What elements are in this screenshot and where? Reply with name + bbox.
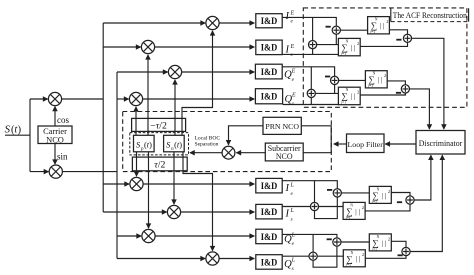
svg-text:E: E [290, 44, 295, 50]
sum box L-I sum [343, 202, 365, 219]
wire sum box 5 to final adder L-I [391, 193, 410, 196]
node minus sign L-I [327, 189, 332, 191]
multiplier cos mixer [48, 92, 61, 105]
wire row5 to mult IeL [103, 183, 129, 185]
wire Q-bus vertical [116, 72, 118, 259]
multiplier sin mixer [49, 165, 62, 178]
wire mult QeE to I&D [182, 71, 255, 73]
svg-text:I&D: I&D [261, 233, 278, 243]
sum box E-Q diff [365, 71, 387, 88]
svg-text:j=1: j=1 [371, 200, 377, 204]
wire code riser to QeE mult [174, 80, 176, 135]
svg-text:| |: | | [356, 255, 361, 263]
node minus sign E-Q [325, 76, 330, 78]
wire final adder E-Q to discriminator [410, 89, 430, 129]
node label QeE [284, 68, 296, 83]
wire row7 branch to plus adder [312, 234, 314, 252]
node minus sign final E-Q [396, 92, 401, 94]
sum box E-I sum [338, 38, 360, 55]
svg-text:2: 2 [386, 19, 388, 24]
svg-text:I&D: I&D [261, 44, 278, 54]
svg-text:L: L [290, 208, 295, 214]
wire row5 output to adders [282, 181, 337, 189]
svg-text:N: N [373, 72, 376, 76]
wire minus adder L-I to sum box [341, 192, 369, 194]
svg-text:The ACF Reconstruction: The ACF Reconstruction [393, 11, 468, 20]
sum box L-I diff [369, 186, 391, 203]
wire row4 to mult QsE [117, 98, 129, 100]
svg-text:E: E [291, 92, 296, 98]
wire code drop to IsL mult [173, 152, 175, 204]
sum box L-Q diff [369, 234, 391, 251]
PRN NCO [263, 117, 301, 134]
wire sum box 4 to final adder Q [360, 93, 405, 95]
delay tau/2 box [132, 157, 187, 171]
svg-text:PRN NCO: PRN NCO [265, 122, 299, 131]
svg-text:N: N [377, 235, 380, 239]
carrier NCO [38, 126, 72, 144]
svg-text:| |: | | [380, 22, 385, 30]
svg-text:I&D: I&D [261, 182, 278, 192]
wire row8 output [283, 255, 309, 257]
node label QeL [284, 233, 296, 248]
adder minus E-I [332, 26, 340, 34]
wire sum box 7 to final adder L-Q [391, 241, 406, 247]
svg-text:j=1: j=1 [340, 101, 346, 105]
multiplier subcarrier/code mixer [222, 146, 235, 159]
node ACF label frame [391, 8, 469, 21]
delay -tau/2 box [132, 118, 186, 131]
wire minus adder L-Q bottom tap [313, 246, 337, 267]
wire row7 to mult QeL [117, 235, 141, 237]
wire subcarrier NCO to code mixer [236, 152, 265, 154]
wire final adder L-I to discriminator [414, 155, 431, 200]
wire final adder E to discriminator [412, 38, 444, 129]
wire discriminator to loop filter [385, 143, 416, 145]
node label QsL [284, 258, 296, 273]
wire Q mixer output to Q-bus [62, 171, 117, 173]
svg-text:N: N [346, 39, 349, 43]
wire plus adder Q to sum box [315, 92, 338, 94]
wire mult QsL to I&D [219, 258, 254, 260]
svg-text:| |: | | [382, 239, 387, 247]
svg-text:2: 2 [362, 205, 364, 210]
svg-text:j=1: j=1 [345, 263, 351, 267]
wire mult QeL to I&D [155, 235, 254, 237]
wire minus adder L-I bottom tap [315, 197, 338, 219]
wire plus adder to sum box [317, 44, 339, 46]
wire sum box 2 to final adder [360, 42, 407, 46]
svg-text:j=1: j=1 [371, 247, 377, 251]
sum box E-I diff [368, 17, 390, 34]
wire I mixer output to I-bus [62, 98, 104, 100]
I&D box 5 [256, 178, 282, 193]
loop filter [347, 134, 385, 153]
discriminator [416, 131, 465, 155]
wire mult IsE to I&D [155, 46, 255, 48]
adder plus E-I [309, 41, 317, 49]
wire mult QsE to I&D [143, 98, 255, 100]
svg-text:S: S [5, 124, 11, 136]
node label IeE [285, 10, 295, 24]
wire row5 branch to plus adder [314, 181, 316, 203]
svg-text:j=1: j=1 [345, 216, 351, 220]
I&D box 3 [255, 64, 282, 79]
wire row8 to mult QsL [117, 258, 205, 260]
wire row4 output [283, 104, 339, 106]
node minus sign final L-I [397, 201, 402, 203]
wire code mixer to separation box [190, 152, 222, 154]
svg-text:j=1: j=1 [369, 30, 375, 34]
BOC separation dashed box [123, 112, 332, 172]
I&D box 4 [255, 89, 282, 104]
multiplier QsL [206, 252, 219, 265]
svg-text:I: I [285, 11, 290, 22]
svg-text:| |: | | [351, 93, 356, 101]
svg-text:| |: | | [382, 192, 387, 200]
wire row3 to mult QeE [117, 71, 168, 73]
adder final E-Q [401, 85, 409, 93]
multiplier IeL [130, 177, 143, 190]
svg-text:2: 2 [357, 90, 359, 95]
wire S(t) lead-in [5, 134, 30, 136]
wire plus adder L-Q to sum box [317, 255, 343, 257]
wire NCO feed bus [301, 126, 331, 153]
wire code riser to IsE mult [147, 55, 149, 135]
subcarrier NCO [265, 143, 303, 161]
wire minus adder Q to sum box [339, 79, 366, 81]
adder minus L-I [333, 189, 341, 197]
multiplier IsL [167, 205, 180, 218]
adder final L-Q [402, 247, 410, 255]
node label IsL [285, 208, 295, 222]
wire row1 branch to plus adder [312, 17, 314, 40]
wire plus adder bottom tap [312, 49, 314, 55]
adder plus E-Q [307, 89, 315, 97]
wire code riser to QsE mult [135, 107, 137, 135]
wire to sin mixer [30, 171, 48, 173]
svg-text:E: E [291, 68, 296, 74]
svg-text:L: L [291, 258, 296, 264]
svg-text:2: 2 [357, 41, 359, 46]
sum box E-Q sum [338, 87, 360, 105]
wire sum box 8 to final adder L-Q [365, 256, 406, 259]
wire row6 output [282, 206, 310, 208]
node minus sign L-Q [327, 238, 332, 240]
svg-text:NCO: NCO [276, 152, 293, 161]
svg-text:L: L [291, 233, 296, 239]
svg-text:| |: | | [355, 208, 360, 216]
wire minus adder bottom stub [335, 34, 337, 44]
wire sum box 3 to final adder Q [387, 81, 405, 85]
I&D box 7 [256, 229, 282, 244]
svg-text:j=1: j=1 [340, 52, 346, 56]
wire mult IeE to I&D [219, 22, 254, 24]
svg-text:I&D: I&D [261, 208, 278, 218]
svg-text:| |: | | [378, 76, 383, 84]
svg-text:I: I [285, 183, 290, 194]
adder final L-I [406, 196, 414, 204]
wire PRN NCO to code mixer [229, 126, 264, 145]
node minus sign final L-Q [398, 254, 403, 256]
svg-text:2: 2 [388, 236, 390, 241]
wire mult IsL to I&D [181, 211, 255, 213]
svg-text:Loop Filter: Loop Filter [348, 140, 384, 149]
svg-text:cos: cos [57, 115, 69, 125]
svg-text:(t): (t) [174, 140, 182, 149]
local code Sp box [134, 135, 155, 152]
inner separation dashed box [130, 133, 189, 155]
svg-text:Discriminator: Discriminator [419, 138, 463, 148]
multiplier QsE [129, 92, 142, 105]
wire mult IeL to I&D [143, 183, 254, 185]
svg-text:N: N [377, 187, 380, 191]
wire input split vertical [29, 99, 31, 172]
svg-text:I&D: I&D [261, 258, 278, 268]
wire plus adder L-I to sum box [319, 206, 344, 208]
wire row2 to mult IsE [103, 46, 140, 48]
wire I-bus vertical [102, 23, 104, 212]
sum box L-Q sum [343, 250, 365, 267]
wire code riser stepped to IeE mult [182, 31, 213, 135]
wire minus adder Q bottom stub [334, 85, 336, 94]
svg-text:N: N [350, 203, 353, 207]
wire row7 output to adders [282, 234, 337, 238]
adder minus E-Q [331, 76, 339, 84]
adder minus L-Q [333, 238, 341, 246]
svg-text:N: N [375, 18, 378, 22]
wire code drop stepped to QsL mult [183, 152, 213, 251]
svg-text:| |: | | [351, 44, 356, 52]
I&D box 6 [256, 204, 282, 219]
wire sin arrow [54, 144, 56, 165]
wire minus adder L-Q to sum box [341, 241, 369, 243]
svg-text:2: 2 [362, 252, 364, 257]
local code Sn box [164, 135, 185, 152]
wire sum box 6 to final adder L-I [365, 204, 410, 211]
node minus sign final E [396, 39, 401, 41]
adder plus L-Q [309, 252, 317, 260]
svg-text:s: s [291, 52, 293, 58]
wire row3 branch to plus adder [310, 67, 312, 90]
svg-text:L: L [290, 183, 295, 189]
node label QsE [285, 92, 297, 107]
wire minus adder to sum box [340, 29, 367, 31]
wire plus adder bottom tap Q [310, 98, 312, 105]
multiplier IsE [141, 40, 154, 53]
svg-text:NCO: NCO [46, 135, 64, 144]
wire cos arrow [54, 107, 56, 127]
svg-text:I&D: I&D [261, 68, 278, 78]
svg-text:Separation: Separation [195, 142, 219, 148]
svg-text:τ/2: τ/2 [154, 160, 165, 171]
svg-text:(t): (t) [144, 140, 152, 149]
I&D box 2 [256, 40, 282, 55]
svg-text:j=1: j=1 [367, 84, 373, 88]
wire to cos mixer [30, 98, 48, 100]
I&D box 1 [256, 14, 282, 28]
svg-text:s: s [291, 216, 293, 222]
svg-text:I: I [285, 209, 290, 220]
svg-text:N: N [351, 251, 354, 255]
ACF reconstruction dashed box [303, 8, 467, 107]
wire row1 to mult IeE [103, 22, 205, 24]
wire row1 output to adders [282, 17, 336, 26]
I&D box 8 [256, 255, 282, 270]
node label IsE [285, 44, 295, 58]
wire row2 output [282, 53, 338, 55]
wire code drop to QeL mult [148, 152, 150, 228]
node minus sign E-I [326, 26, 331, 28]
wire code drop to IeL mult [136, 152, 138, 176]
wire sum box 1 to final adder [389, 30, 407, 34]
svg-text:2: 2 [388, 189, 390, 194]
svg-text:): ) [18, 125, 21, 136]
adder plus L-I [310, 202, 318, 210]
wire final adder L-Q to discriminator [410, 155, 442, 251]
multiplier IeE [206, 16, 219, 29]
wire row3 output to adders [282, 67, 334, 77]
svg-text:I&D: I&D [261, 93, 278, 103]
wire loop filter to NCO box [334, 143, 347, 145]
adder final E [403, 34, 411, 42]
svg-text:I&D: I&D [261, 17, 278, 27]
svg-text:−τ/2: −τ/2 [150, 121, 167, 132]
multiplier QeE [168, 65, 181, 78]
multiplier QeL [142, 229, 155, 242]
svg-text:s: s [292, 266, 294, 272]
svg-text:E: E [290, 10, 295, 16]
svg-text:sin: sin [57, 152, 68, 162]
svg-text:2: 2 [384, 73, 386, 78]
wire row6 to mult IsL [103, 211, 166, 213]
svg-text:N: N [346, 88, 349, 92]
node label IeL [285, 183, 295, 197]
svg-text:Local BOC: Local BOC [195, 136, 221, 142]
